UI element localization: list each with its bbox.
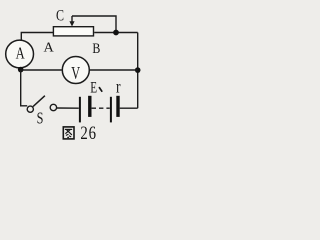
svg-text:A: A [16,45,25,63]
switch S hinge terminal [27,106,33,112]
wire: battery to bottom-right corner [120,107,138,109]
svg-text:S: S [37,110,44,128]
battery cell 1 positive plate (long thin) [79,97,81,123]
caption character 图 (hand-drawn) [63,127,74,139]
wire: slider tap C to junction on top rail [72,16,116,33]
junction node (voltmeter branch joins right rail) [135,67,141,73]
svg-text:A: A [44,40,54,54]
caption number 26 [80,122,96,143]
voltmeter V1 [62,57,89,84]
svg-text:V: V [71,64,80,84]
slider arrow of rheostat [71,16,73,22]
battery cell 2 negative plate (short thick) [116,96,119,117]
wire: rheostat terminal B to top-right corner [94,32,138,34]
label S [37,110,44,128]
wire: ammeter top to rheostat terminal A (top-left rail) [21,33,53,41]
svg-text:B: B [92,40,100,56]
svg-text:C: C [56,7,64,24]
right rail (top corner down to battery) [137,33,139,109]
label C [56,7,64,24]
label A (rheostat terminal) [44,40,54,54]
voltmeter branch wire left [21,69,62,71]
label E (emf) [90,79,97,96]
junction node (slider tap joins top rail) [113,30,119,36]
junction node (ammeter bottom / voltmeter branch) [18,67,24,73]
battery cell 1 negative plate (short thick) [88,96,91,117]
label r (internal resistance) [116,78,121,97]
svg-text:E: E [90,79,97,96]
voltmeter branch wire right [90,69,138,71]
switch contact terminal [50,104,56,110]
wire: switch to battery [57,107,79,109]
svg-text:26: 26 [80,122,96,143]
ammeter A1 [6,40,34,68]
label B (rheostat terminal) [92,40,100,56]
switch blade (open) [33,96,45,107]
enumeration comma between E and r [99,88,101,92]
dashed link between cells [92,107,110,109]
rheostat (resistor AB) body [53,27,93,36]
svg-text:r: r [116,78,121,97]
battery cell 2 positive plate (long thin) [110,97,112,123]
left rail down to switch [21,70,28,106]
